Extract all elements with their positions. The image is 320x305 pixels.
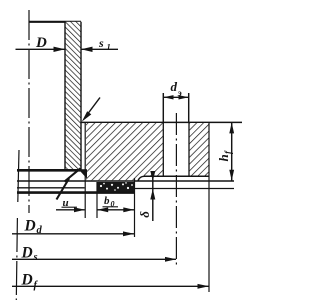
- sealing face level line: [17, 180, 234, 182]
- dimension D arrowhead: [54, 47, 66, 52]
- dimension d line: [163, 96, 188, 98]
- dimension hf lower arrowhead: [229, 170, 234, 181]
- gasket bottom line left segment: [17, 187, 85, 189]
- dimension Df arrowhead: [198, 284, 210, 289]
- dimension d hole extension left: [162, 93, 164, 122]
- label b0 underline: [103, 206, 119, 208]
- bolt hole left wall: [162, 122, 164, 176]
- gasket left edge and b0 extension line: [96, 182, 98, 218]
- flange left hatched section: [86, 123, 163, 180]
- dimension Ds arrowhead: [165, 257, 176, 262]
- dimension Dd arrowhead: [123, 231, 135, 236]
- dimension d right arrowhead: [179, 95, 189, 99]
- vessel axis centerline (upper): [28, 10, 30, 213]
- dimension d left arrowhead: [163, 95, 173, 99]
- svg-text:1: 1: [107, 42, 111, 52]
- pipe wall hatched section: [65, 22, 81, 171]
- label delta: [137, 211, 152, 218]
- dimension s1 line: [82, 48, 119, 50]
- flange top surface line with hf extension: [81, 121, 242, 123]
- svg-text:s: s: [33, 252, 38, 263]
- dimension delta line: [152, 172, 154, 221]
- svg-text:d: d: [171, 79, 178, 94]
- weld leader arrowhead: [82, 111, 92, 121]
- svg-text:δ: δ: [137, 211, 152, 218]
- svg-text:D: D: [21, 272, 33, 289]
- weld leader arrow (top): [85, 98, 100, 118]
- weld seam fill (bottom): [79, 169, 88, 179]
- svg-text:b: b: [104, 195, 110, 207]
- gasket speckles: [100, 182, 133, 191]
- dimension Ds line: [12, 258, 176, 260]
- weld zigzag leader (bottom): [57, 168, 81, 199]
- dimension hf line: [231, 122, 233, 180]
- dimension b0 line: [97, 209, 135, 211]
- pipe wall outer edge: [80, 22, 82, 170]
- pipe bottom end face line: [17, 169, 81, 172]
- dimension Df line: [12, 285, 209, 287]
- flange bottom surface line: [144, 175, 209, 177]
- pipe top edge line: [29, 21, 81, 23]
- gasket right edge and Dd extension line: [134, 178, 136, 237]
- svg-text:D: D: [21, 245, 33, 262]
- svg-text:h: h: [216, 154, 231, 161]
- dimension D line: [16, 48, 65, 50]
- bolt hole axis centerline: [175, 113, 177, 267]
- svg-text:D: D: [24, 218, 36, 235]
- flange raised face step curve: [138, 176, 144, 180]
- pipe wall inner edge: [64, 22, 66, 171]
- dimension hf upper arrowhead: [229, 122, 234, 133]
- gasket section: [97, 182, 135, 192]
- dimension delta upper arrowhead: [150, 171, 155, 181]
- dimension b0 right arrowhead: [123, 207, 134, 212]
- label u underline: [62, 206, 78, 208]
- dimension delta lower arrowhead: [150, 189, 155, 200]
- dimension u arrowhead: [74, 207, 85, 212]
- svg-text:s: s: [98, 36, 104, 50]
- flange bore edge and u extension line: [84, 122, 86, 218]
- dimension s1 arrowhead: [81, 47, 93, 52]
- svg-text:d: d: [37, 225, 43, 236]
- dimension Dd line: [12, 233, 134, 235]
- gasket bottom extension right segment: [135, 188, 235, 190]
- dimension b0 left arrowhead: [97, 207, 108, 212]
- label hf: [216, 150, 233, 162]
- bolt hole right wall: [188, 122, 190, 176]
- dimension u line: [56, 209, 85, 211]
- dimension d hole extension right: [188, 93, 190, 122]
- mating flange edge line: [17, 191, 135, 194]
- flange outer edge and Df extension line: [208, 122, 210, 292]
- svg-text:D: D: [35, 35, 47, 51]
- svg-text:э: э: [177, 89, 182, 99]
- vessel axis centerline (lower, skewed): [18, 150, 19, 202]
- flange right hatched section: [189, 123, 209, 176]
